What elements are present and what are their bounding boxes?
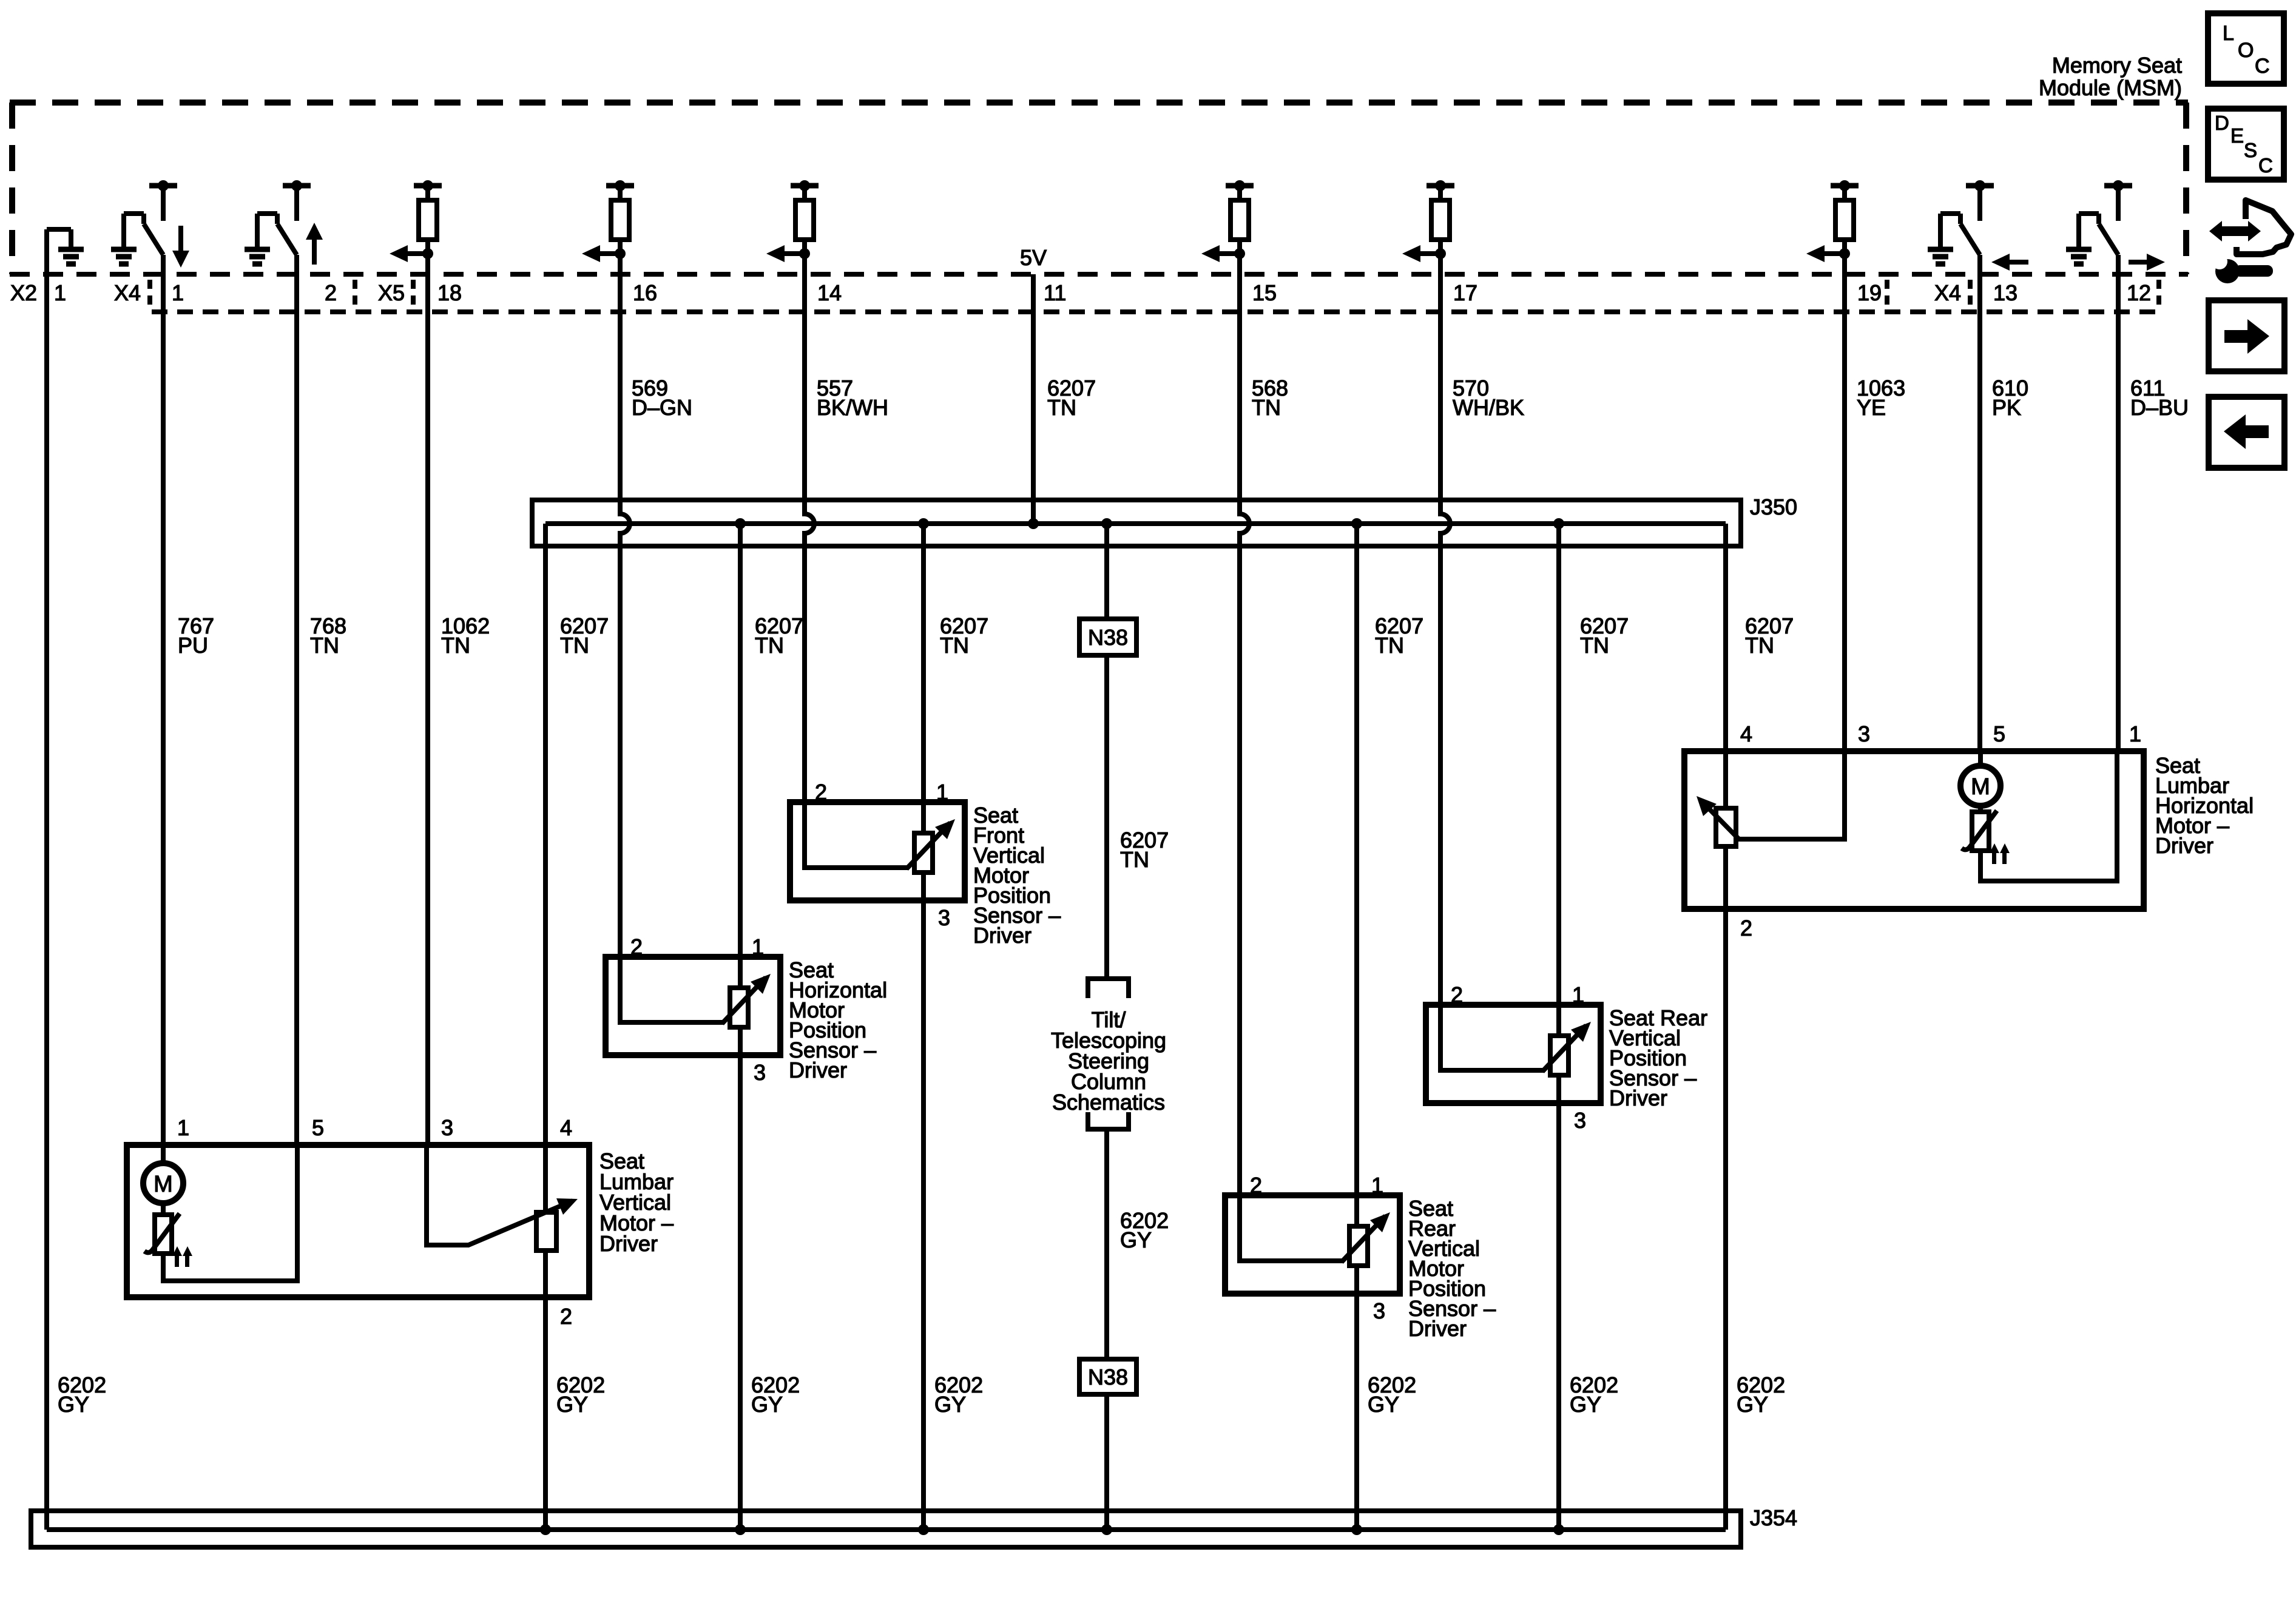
switch with ground contact, SW4 / X4 pin 12 [2066, 180, 2132, 264]
label wire 768 TN [310, 613, 346, 658]
svg-text:TN: TN [940, 633, 969, 658]
label wire 6202 GY [556, 1372, 605, 1417]
svg-text:2: 2 [1451, 982, 1463, 1007]
svg-text:3: 3 [1373, 1298, 1385, 1323]
node junction dot + left output arrow at R 19 [1806, 245, 1850, 262]
thermal protector of Seat Lumbar Horizontal Motor [1962, 811, 2010, 864]
label text Seat Lumbar Vertical Motor - Driver [599, 1149, 674, 1256]
label wire 569 D–GN [632, 376, 692, 420]
label wire 6202 GY (steering column branch) [1120, 1208, 1169, 1252]
wire from R 19 down [1842, 254, 1847, 751]
svg-text:M: M [154, 1172, 173, 1197]
potentiometer element on pin4-pin2 wire (Lumbar Vertical Motor) [536, 1212, 556, 1251]
switch with ground contact, SW3 / X4 pin 13 [1928, 180, 1994, 264]
svg-text:2: 2 [1250, 1173, 1262, 1198]
svg-text:1: 1 [172, 280, 184, 305]
svg-text:4: 4 [560, 1115, 572, 1140]
svg-text:M: M [1971, 774, 1990, 800]
node off-page bracket (top) to steering column schematics [1088, 979, 1129, 998]
label wire 6207 TN [1047, 376, 1096, 420]
svg-text:1: 1 [54, 280, 66, 305]
svg-text:TN: TN [310, 633, 339, 658]
svg-text:Driver: Driver [789, 1058, 847, 1082]
node J354 junction dot x=2569 [1553, 1524, 1564, 1535]
svg-text:X4: X4 [1934, 280, 1961, 305]
svg-text:2: 2 [1740, 916, 1752, 940]
position sensor Seat Rear Vertical Position Sensor - Driver [1426, 1005, 1601, 1103]
svg-text:Driver: Driver [1408, 1316, 1467, 1341]
wire drop x=1220 (Seat Horizontal sensor pin1/pin3) [738, 524, 743, 1530]
thermal protector of Seat Lumbar Vertical Motor [144, 1214, 192, 1267]
svg-text:PU: PU [178, 633, 208, 658]
svg-text:3: 3 [1574, 1108, 1586, 1133]
svg-text:15: 15 [1252, 280, 1277, 305]
svg-text:GY: GY [1737, 1392, 1768, 1417]
svg-text:1: 1 [177, 1115, 189, 1140]
svg-text:X5: X5 [378, 280, 405, 305]
svg-text:1: 1 [1572, 982, 1584, 1007]
wire from R 17 down [1440, 254, 1450, 1005]
svg-text:D: D [2215, 112, 2229, 134]
wire sensor drop at x=899 (J350 left end through Seat Lumbar Vertical Motor) [543, 524, 548, 1530]
label wire 6202 GY [1737, 1372, 1785, 1417]
svg-text:Schematics: Schematics [1052, 1090, 1165, 1115]
svg-text:TN: TN [1252, 395, 1281, 420]
svg-text:4: 4 [1740, 721, 1752, 746]
node legend icon hand with double arrow and wrench [2209, 200, 2291, 283]
resistor R 14 (pull-up inside MSM) [791, 180, 819, 254]
label text Seat Rear Vertical Position Sensor - Driver [1609, 1005, 1707, 1110]
svg-text:Module (MSM): Module (MSM) [2039, 75, 2182, 100]
svg-text:Driver: Driver [1609, 1085, 1667, 1110]
label wire 6202 GY [934, 1372, 983, 1417]
svg-text:5: 5 [312, 1115, 324, 1140]
motor M2 (Seat Lumbar Horizontal Motor) [1960, 766, 2001, 806]
wire from switch SW4 / X4 pin 12 going down [2116, 255, 2121, 751]
wire from switch SW2 seat up / X4 pin 2 going down [294, 255, 299, 1145]
svg-text:Driver: Driver [2155, 833, 2213, 858]
node junction dot + left output arrow at R 15 [1201, 245, 1245, 262]
wire drop x=2844 (J350 right end through Seat Lumbar Horizontal Motor) [1723, 524, 1728, 1530]
node J354 junction dot x=1824 [1101, 1524, 1112, 1535]
node legend icon DESC [2208, 109, 2284, 180]
label wire 767 PU [178, 613, 214, 658]
node J350 junction dot x=1824 [1101, 518, 1112, 529]
wire drop x=1522 (Seat Front Vertical sensor pin1/pin3) [921, 524, 926, 1530]
motor assembly box: Seat Lumbar Horizontal Motor - Driver [1684, 751, 2144, 909]
wire 5V supply (pin 11) down to J350 [1031, 274, 1036, 524]
node J350 junction dot x=1522 [918, 518, 929, 529]
svg-text:O: O [2238, 39, 2254, 62]
svg-text:N38: N38 [1088, 1365, 1128, 1389]
svg-text:E: E [2230, 124, 2244, 147]
wire from R 15 down [1240, 254, 1249, 1195]
wire motor branch (pin5-pin1) inside Lumbar Horizontal Motor [1980, 751, 2117, 881]
wire motor branch (pin1-pin5) inside Lumbar Vertical Motor [163, 1145, 297, 1281]
svg-text:TN: TN [755, 633, 784, 658]
node J354 junction dot x=899 [540, 1524, 551, 1535]
node J350 junction dot x=2236 [1351, 518, 1362, 529]
arrow (right) beside switch SW4 / X4 pin 12 [2129, 254, 2165, 271]
svg-text:TN: TN [560, 633, 589, 658]
label wire 6207 TN [1580, 613, 1629, 658]
svg-text:TN: TN [1375, 633, 1404, 658]
svg-text:J354: J354 [1750, 1505, 1797, 1530]
svg-text:12: 12 [2127, 280, 2151, 305]
wire from R X5-18 down [425, 254, 430, 1145]
switch with ground contact, SW1 seat down / X4 pin 1 [111, 180, 177, 264]
arrow (down) beside switch SW1 seat down / X4 pin 1 [172, 226, 189, 268]
wire J354 internal bus [47, 1527, 1726, 1532]
label wire 6207 TN [940, 613, 988, 658]
potentiometer wiper branch (pin 3) inside Lumbar Vertical Motor [427, 1145, 573, 1245]
label wire 6202 GY [58, 1372, 106, 1417]
arrow (left) beside switch SW3 / X4 pin 13 [1991, 254, 2028, 271]
node off-page bracket (bottom) [1088, 1112, 1129, 1129]
resistor R 15 (pull-up inside MSM) [1226, 180, 1254, 254]
svg-text:1: 1 [2129, 721, 2141, 746]
svg-text:GY: GY [751, 1392, 783, 1417]
svg-text:3: 3 [441, 1115, 453, 1140]
resistor R 19 (pull-up inside MSM) [1831, 180, 1859, 254]
label wire 6202 GY [1570, 1372, 1618, 1417]
label text Seat Front Vertical Motor Position Sensor - Driver [973, 803, 1061, 948]
position sensor Seat Front Vertical Motor Position Sensor - Driver [790, 802, 965, 900]
svg-text:1: 1 [752, 934, 764, 959]
wire from switch SW3 / X4 pin 13 going down [1977, 255, 1982, 751]
label text Seat Horizontal Motor Position Sensor - Driver [789, 957, 887, 1082]
wire drop x=2569 (Seat Rear Vertical Position sensor) [1556, 524, 1561, 1530]
svg-text:N38: N38 [1088, 625, 1128, 650]
node splice pack J350 [532, 500, 1741, 546]
label wire 6202 GY [751, 1372, 800, 1417]
label wire 611 D–BU [2130, 376, 2189, 420]
node N38 (upper reference box) [1079, 619, 1136, 655]
svg-text:19: 19 [1857, 280, 1882, 305]
svg-text:X2: X2 [10, 280, 37, 305]
node legend icon LOC [2208, 13, 2284, 84]
label wire 6202 GY [1368, 1372, 1416, 1417]
svg-text:GY: GY [556, 1392, 588, 1417]
svg-text:S: S [2244, 139, 2257, 161]
potentiometer wiper branch (pin 3) inside Lumbar Horizontal Motor [1701, 751, 1845, 839]
svg-text:3: 3 [1858, 721, 1870, 746]
svg-text:GY: GY [58, 1392, 89, 1417]
node J350 junction dot x=1703 [1028, 518, 1039, 529]
label wire 1063 YE [1857, 376, 1905, 420]
svg-text:1: 1 [936, 780, 948, 805]
ground G-X2 (X2 pin 1) [47, 229, 84, 264]
svg-text:13: 13 [1993, 280, 2017, 305]
label Tilt/Telescoping Steering Column Schematics [1051, 1007, 1166, 1115]
resistor R X5-18 (pull-up inside MSM) [414, 180, 442, 254]
wire from R 16 down [620, 254, 630, 957]
svg-text:X4: X4 [114, 280, 141, 305]
node junction dot + left output arrow at R 17 [1402, 245, 1446, 262]
svg-text:2: 2 [630, 934, 643, 959]
svg-text:TN: TN [1745, 633, 1774, 658]
svg-text:Memory Seat: Memory Seat [2052, 53, 2182, 78]
label text Seat Lumbar Horizontal Motor - Driver [2155, 753, 2254, 858]
svg-text:GY: GY [1368, 1392, 1399, 1417]
svg-text:C: C [2258, 154, 2273, 177]
node Memory Seat Module (MSM) dashed boundary box [10, 103, 2188, 274]
svg-text:YE: YE [1857, 395, 1886, 420]
svg-text:Driver: Driver [599, 1231, 658, 1256]
svg-text:BK/WH: BK/WH [817, 395, 888, 420]
svg-text:16: 16 [633, 280, 657, 305]
position sensor Seat Horizontal Motor Position Sensor - Driver [606, 957, 780, 1055]
wire X2 pin1 ground wire down to J354 [44, 229, 49, 1530]
svg-text:TN: TN [1047, 395, 1076, 420]
motor assembly box: Seat Lumbar Vertical Motor - Driver [127, 1145, 589, 1297]
svg-text:2: 2 [560, 1304, 572, 1329]
svg-text:C: C [2255, 55, 2270, 78]
label wire 570 WH/BK [1453, 376, 1524, 420]
svg-text:18: 18 [437, 280, 462, 305]
motor M1 (Seat Lumbar Vertical Motor) [143, 1163, 183, 1203]
svg-text:J350: J350 [1750, 495, 1797, 519]
svg-text:GY: GY [934, 1392, 966, 1417]
node J354 junction dot x=1220 [735, 1524, 746, 1535]
switch with ground contact, SW2 seat up / X4 pin 2 [245, 180, 311, 264]
svg-text:5V: 5V [1020, 245, 1047, 270]
svg-text:17: 17 [1453, 280, 1477, 305]
node J354 junction dot x=2236 [1351, 1524, 1362, 1535]
node junction dot + left output arrow at R 16 [582, 245, 626, 262]
svg-text:TN: TN [1580, 633, 1609, 658]
svg-text:11: 11 [1044, 280, 1066, 305]
label wire 6207 TN [1375, 613, 1423, 658]
svg-text:D–BU: D–BU [2130, 395, 2189, 420]
node junction dot + left output arrow at R X5-18 [390, 245, 433, 262]
label wire 6207 TN [560, 613, 609, 658]
label wire 557 BK/WH [817, 376, 888, 420]
node legend icon back arrow box [2209, 397, 2284, 468]
arrow (up) beside switch SW2 seat up / X4 pin 2 [306, 223, 323, 265]
pin labels 1 5 3 4 2 of Lumbar Vertical Motor [177, 1115, 572, 1329]
node junction dot + left output arrow at R 14 [766, 245, 810, 262]
wire from R 14 down [805, 254, 814, 802]
svg-text:2: 2 [325, 280, 337, 305]
node splice pack J354 [31, 1511, 1741, 1547]
wire steering-column branch x=1824 [1104, 524, 1109, 1530]
wire drop x=2236 (Seat Rear Vertical Motor sensor) [1354, 524, 1359, 1530]
resistor R 16 (pull-up inside MSM) [606, 180, 634, 254]
svg-text:3: 3 [754, 1060, 766, 1085]
arrow head of wiper (Lumbar Horizontal Motor) [1697, 796, 1717, 816]
label wire 610 PK [1992, 376, 2028, 420]
node J350 junction dot x=1220 [735, 518, 746, 529]
node connector pin-row dotted line [152, 309, 2159, 314]
svg-text:L: L [2223, 22, 2234, 45]
svg-text:5: 5 [1993, 721, 2005, 746]
svg-text:GY: GY [1120, 1227, 1152, 1252]
svg-text:2: 2 [815, 780, 827, 805]
svg-text:14: 14 [817, 280, 842, 305]
svg-text:TN: TN [441, 633, 470, 658]
label wire 568 TN [1252, 376, 1288, 420]
pin labels 4 3 5 1 2 of Lumbar Horizontal Motor [1740, 721, 2141, 940]
label wire 6207 TN (steering column branch) [1120, 828, 1169, 872]
node J350 junction dot x=2569 [1553, 518, 1564, 529]
label wire 6207 TN [755, 613, 803, 658]
wire J350 internal bus [545, 521, 1726, 526]
label wire 1062 TN [441, 613, 490, 658]
node legend icon forward arrow box [2209, 300, 2284, 371]
node N38 (lower reference box) [1079, 1359, 1136, 1394]
svg-text:1: 1 [1371, 1173, 1383, 1198]
svg-text:Driver: Driver [973, 923, 1032, 948]
arrow head of wiper (Lumbar Vertical Motor) [556, 1198, 578, 1215]
svg-text:GY: GY [1570, 1392, 1601, 1417]
position sensor Seat Rear Vertical Motor Position Sensor - Driver [1225, 1195, 1400, 1294]
svg-text:D–GN: D–GN [632, 395, 692, 420]
wire from switch SW1 seat down / X4 pin 1 going down [161, 255, 166, 1145]
svg-text:WH/BK: WH/BK [1453, 395, 1524, 420]
svg-text:3: 3 [938, 905, 950, 930]
resistor R 17 (pull-up inside MSM) [1427, 180, 1454, 254]
label wire 6207 TN [1745, 613, 1794, 658]
svg-text:TN: TN [1120, 847, 1149, 872]
svg-text:PK: PK [1992, 395, 2021, 420]
label text Seat Rear Vertical Motor Position Sensor - Driver [1408, 1196, 1496, 1341]
node J354 junction dot x=1522 [918, 1524, 929, 1535]
potentiometer element on pin4-pin2 wire (Lumbar Horizontal Motor) [1716, 808, 1736, 846]
